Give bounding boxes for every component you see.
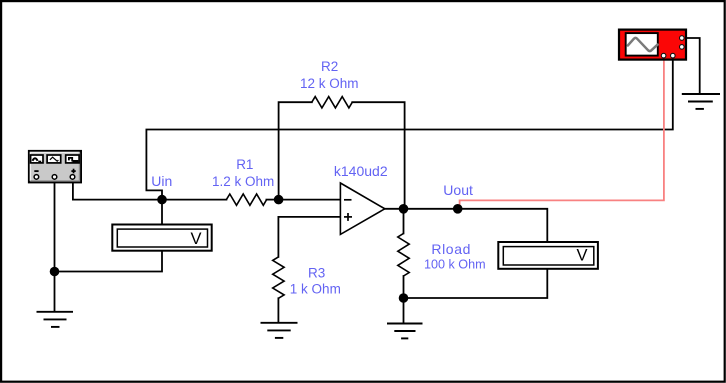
svg-text:k140ud2: k140ud2 [334, 163, 388, 179]
svg-text:Uout: Uout [443, 182, 473, 198]
svg-text:100 k Ohm: 100 k Ohm [424, 258, 486, 272]
svg-text:V: V [577, 246, 588, 264]
svg-text:Uin: Uin [151, 173, 172, 189]
svg-text:R3: R3 [308, 266, 325, 281]
svg-text:V: V [191, 230, 202, 248]
svg-text:R1: R1 [236, 157, 253, 172]
svg-text:Rload: Rload [431, 241, 471, 257]
svg-text:R2: R2 [321, 59, 338, 74]
svg-text:12 k Ohm: 12 k Ohm [300, 76, 359, 91]
svg-text:1 k Ohm: 1 k Ohm [290, 281, 341, 296]
svg-text:1.2 k Ohm: 1.2 k Ohm [212, 174, 274, 189]
